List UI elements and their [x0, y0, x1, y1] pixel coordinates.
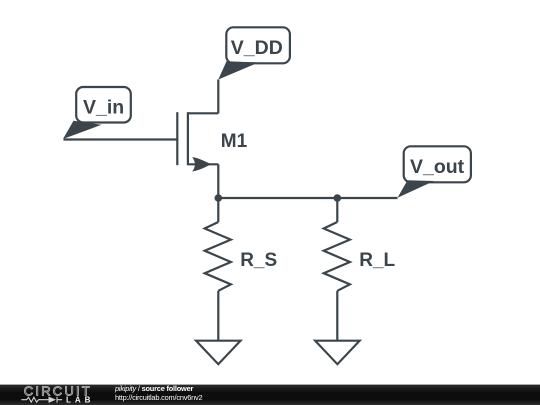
footer bar: [0, 385, 540, 405]
svg-text:pikipity / source follower: pikipity / source follower: [114, 384, 194, 393]
wire R_S to ground: [217, 291, 219, 341]
svg-text:R_L: R_L: [359, 250, 395, 271]
wire output node to V_out: [218, 197, 397, 199]
ground left: [196, 341, 240, 365]
resistor R_L: [324, 222, 350, 291]
svg-text:R_S: R_S: [240, 250, 277, 271]
transistor M1 (NMOS): [177, 112, 218, 171]
net flag V_out: [398, 146, 471, 198]
svg-text:LAB: LAB: [66, 396, 94, 405]
svg-text:http://circuitlab.com/cnv6nv2: http://circuitlab.com/cnv6nv2: [115, 393, 203, 402]
wire V_in to gate: [64, 138, 178, 140]
svg-text:V_DD: V_DD: [231, 37, 283, 59]
wire source to output node: [217, 164, 219, 198]
node junction dot right: [334, 194, 342, 202]
wire node to R_L: [336, 198, 338, 222]
svg-text:M1: M1: [221, 131, 248, 152]
ground right: [315, 341, 359, 365]
logo schematic resistor and diode: [21, 397, 62, 403]
node junction dot left: [215, 194, 223, 202]
wire node to R_S: [217, 198, 219, 222]
wire drain to V_DD: [217, 80, 219, 114]
svg-text:V_in: V_in: [83, 96, 124, 118]
net flag V_in: [63, 87, 131, 139]
svg-text:V_out: V_out: [410, 156, 465, 178]
resistor R_S: [205, 222, 231, 291]
wire R_L to ground: [336, 291, 338, 341]
net flag V_DD: [218, 27, 290, 79]
